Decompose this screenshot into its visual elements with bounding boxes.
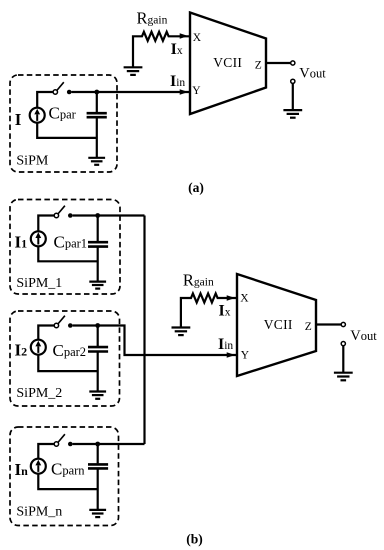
switch S2 open circle (SiPM_1) (54, 213, 58, 217)
svg-text:(b): (b) (186, 531, 203, 546)
svg-text:Vout: Vout (299, 66, 326, 82)
wire source top to switch (a) (37, 92, 53, 107)
svg-text:SiPM_n: SiPM_n (16, 505, 62, 520)
capacitor Cpar1 plates (88, 242, 108, 246)
terminal ground-side circle (b) (341, 342, 345, 346)
junction node dot (SiPM_1) (95, 213, 100, 218)
wire source top to switch (SiPM_n) (38, 444, 54, 458)
svg-text:Z: Z (255, 60, 262, 72)
wire SiPM_1 to bus (73, 214, 145, 216)
SiPM_1 dashed box (10, 200, 120, 295)
SiPM_n dashed box (10, 427, 119, 526)
wire Z to Vout terminal (b) (316, 323, 341, 325)
wire junction to capacitor (SiPM_n) (97, 444, 99, 463)
wire capacitor to ground (SiPM_2) (97, 352, 99, 391)
switch S4 contact dot (SiPM_n) (68, 442, 73, 447)
wire junction to capacitor (a) (96, 92, 98, 112)
junction node dot (SiPM_n) (95, 442, 100, 447)
wire switch to Y input (a) (72, 91, 190, 93)
current source I (a) arrow (34, 109, 40, 121)
current source In circle (31, 459, 46, 474)
svg-text:I: I (15, 110, 22, 129)
switch S1 open circle (a) (53, 90, 57, 94)
svg-text:SiPM_2: SiPM_2 (16, 386, 62, 401)
svg-text:SiPM_1: SiPM_1 (16, 276, 62, 291)
current source I2 arrow (35, 341, 41, 353)
current source I1 arrow (35, 232, 41, 244)
terminal ground-side circle (a) (291, 79, 295, 83)
switch S4 lever (SiPM_n) (58, 434, 65, 442)
svg-text:Y: Y (241, 350, 250, 362)
wire Z to Vout terminal (a) (266, 62, 291, 64)
terminal Vout circle (a) (291, 61, 295, 65)
SiPM dashed box (a) (10, 75, 117, 172)
current source I2 circle (31, 340, 46, 355)
VCII U2 trapezoid (b) (237, 274, 316, 376)
wire source top to switch (SiPM_1) (38, 216, 54, 231)
wire capacitor to ground (SiPM_n) (97, 469, 99, 510)
switch S4 open circle (SiPM_n) (54, 442, 58, 446)
svg-text:Cparn: Cparn (51, 460, 85, 479)
svg-text:VCII: VCII (264, 317, 293, 332)
wire bottom rail (SiPM_n) (38, 474, 97, 489)
ground in SiPM (a) (88, 158, 105, 165)
capacitor Cpar plates (a) (87, 113, 107, 117)
switch S2 lever (SiPM_1) (58, 206, 65, 214)
terminal Vout circle (b) (341, 322, 345, 326)
arrowhead into pin X (a) (180, 33, 189, 39)
svg-text:Rgain: Rgain (183, 271, 214, 290)
svg-text:I2: I2 (15, 341, 28, 360)
VCII U1 trapezoid (a) (190, 13, 266, 115)
arrowhead into pin X (b) (227, 295, 236, 301)
ground for Rgain (b) (172, 328, 191, 336)
wire bottom rail (SiPM_1) (38, 247, 97, 261)
switch S3 contact dot (SiPM_2) (68, 323, 73, 328)
current source I (a) circle (30, 108, 45, 123)
svg-text:I1: I1 (15, 233, 28, 252)
wire junction to capacitor (SiPM_1) (97, 216, 99, 242)
switch S2 contact dot (SiPM_1) (68, 213, 73, 218)
svg-text:In: In (15, 460, 29, 479)
ground at output (b) (334, 373, 353, 381)
wire SiPM_2 to Y input of VCII (b) (73, 326, 236, 356)
svg-text:Iin: Iin (170, 73, 185, 90)
capacitor Cparn plates (88, 464, 108, 468)
svg-text:SiPM: SiPM (16, 154, 48, 169)
wire capacitor to ground (a) (96, 118, 98, 158)
wire bottom rail (SiPM_2) (38, 355, 97, 371)
ground in SiPM_1 (89, 282, 106, 289)
wire bus vertical (SiPM_1 to SiPM_n) (143, 216, 145, 445)
resistor R_gain (b) zigzag with leads (181, 294, 236, 328)
wire junction to capacitor (SiPM_2) (97, 326, 99, 347)
ground at output (a) (283, 110, 302, 118)
arrowhead into pin Y (a) (180, 89, 189, 95)
svg-text:Ix: Ix (171, 41, 183, 58)
wire SiPM_n to bus (73, 443, 145, 445)
svg-text:Cpar2: Cpar2 (53, 341, 87, 360)
ground in SiPM_n (89, 510, 106, 517)
svg-text:Vout: Vout (350, 328, 377, 344)
svg-text:X: X (240, 293, 249, 305)
current source I1 circle (31, 231, 46, 246)
svg-text:X: X (193, 32, 202, 44)
capacitor Cpar2 plates (88, 347, 108, 351)
arrowhead into pin Y (b) (227, 352, 236, 358)
current source In arrow (35, 460, 41, 472)
junction node dot (SiPM_2) (95, 323, 100, 328)
wire source top to switch (SiPM_2) (38, 326, 54, 340)
wire terminal to ground (a) (292, 83, 294, 110)
svg-text:Rgain: Rgain (137, 9, 168, 28)
wire bottom rail (a) (37, 123, 97, 137)
ground for Rgain (a) (124, 67, 143, 75)
junction node dot (a) (94, 90, 99, 95)
SiPM_2 dashed box (10, 311, 120, 406)
svg-text:(a): (a) (188, 180, 204, 195)
svg-text:Ix: Ix (219, 303, 231, 320)
svg-text:Cpar: Cpar (49, 104, 77, 123)
svg-text:Z: Z (305, 321, 312, 333)
wire terminal to ground (b) (342, 346, 344, 373)
switch S3 lever (SiPM_2) (58, 316, 65, 324)
svg-text:VCII: VCII (213, 55, 242, 70)
switch S3 open circle (SiPM_2) (54, 323, 58, 327)
switch S1 lever (a) (57, 82, 64, 90)
svg-text:Y: Y (192, 85, 201, 97)
svg-text:Iin: Iin (218, 336, 233, 353)
wire capacitor to ground (SiPM_1) (97, 247, 99, 281)
svg-text:Cpar1: Cpar1 (54, 233, 88, 252)
resistor R_gain (a) zigzag with leads (133, 32, 189, 67)
switch S1 contact dot (a) (67, 90, 72, 95)
ground in SiPM_2 (89, 392, 106, 399)
